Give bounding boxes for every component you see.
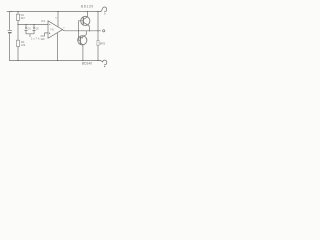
svg-text:BD140: BD140	[82, 61, 92, 65]
svg-text:D1: D1	[28, 27, 32, 30]
svg-text:22k: 22k	[41, 38, 46, 41]
svg-text:x: x	[55, 16, 57, 19]
svg-text:8R2: 8R2	[100, 41, 106, 45]
svg-text:1x7k: 1x7k	[31, 36, 40, 40]
svg-text:741: 741	[50, 29, 55, 32]
svg-text:4k7: 4k7	[21, 16, 26, 20]
svg-text:IC1: IC1	[41, 19, 46, 23]
svg-text:6: 6	[63, 28, 65, 30]
svg-text:D2: D2	[36, 27, 40, 30]
svg-text:10k: 10k	[21, 43, 26, 47]
svg-text:BD139: BD139	[81, 4, 93, 8]
